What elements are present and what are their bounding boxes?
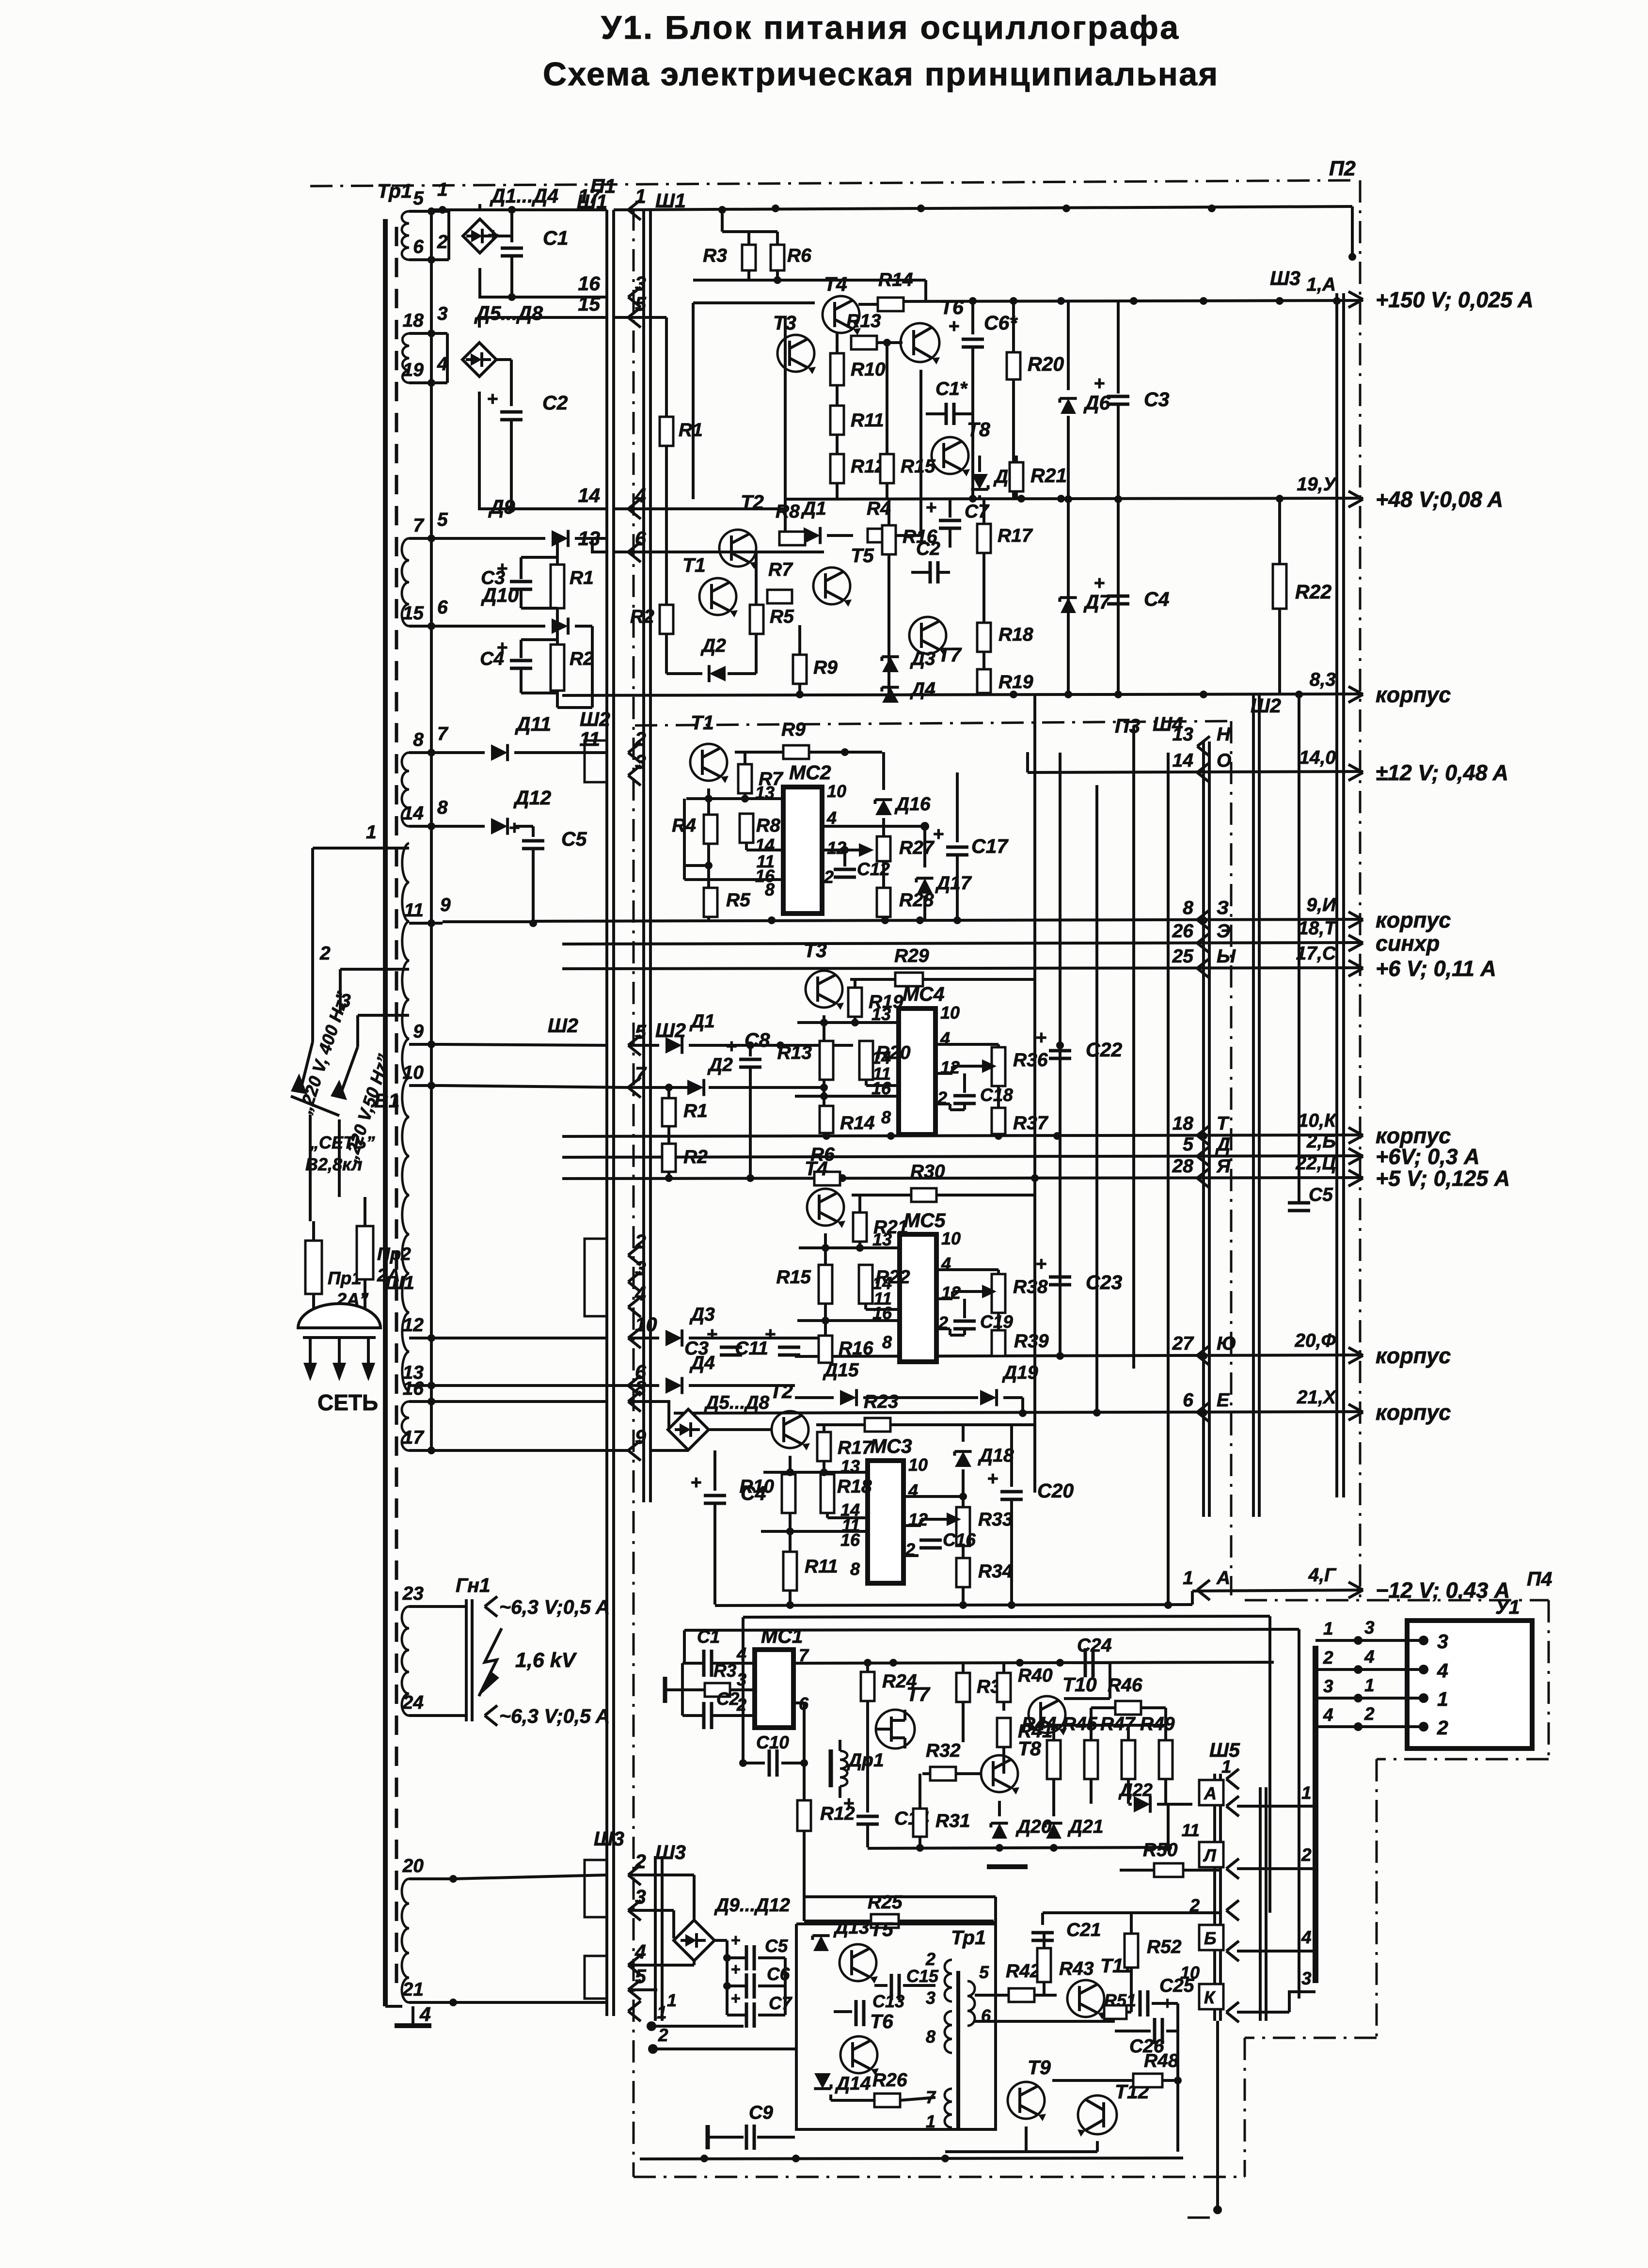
rail +6V 0,3: [562, 1156, 1363, 1157]
choke Dr1: [829, 1749, 833, 1787]
svg-text:Д2: Д2: [707, 1055, 733, 1075]
res R39: [997, 1313, 1000, 1330]
svg-text:C4: C4: [480, 648, 504, 669]
svg-text:Д2: Д2: [700, 635, 726, 656]
svg-text:10: 10: [1180, 1963, 1200, 1983]
svg-text:8: 8: [882, 1332, 892, 1352]
res R34: [962, 1546, 965, 1558]
connector Sh3 right double line: [1335, 293, 1338, 1497]
cap C15 wires: [874, 1984, 887, 1987]
wires to Sh2 pins 5,7: [443, 1044, 607, 1045]
svg-text:1,А: 1,А: [1306, 274, 1336, 295]
svg-text:Т6: Т6: [940, 296, 964, 318]
svg-text:3: 3: [635, 272, 646, 295]
cap C9: [708, 2136, 715, 2139]
svg-text:C7: C7: [965, 501, 990, 522]
svg-text:П2: П2: [1329, 157, 1356, 180]
svg-text:З: З: [1217, 898, 1229, 918]
svg-text:Л: Л: [1203, 1845, 1217, 1865]
svg-text:R2: R2: [630, 606, 654, 627]
svg-text:Т2: Т2: [770, 1380, 793, 1402]
diode D22: [1134, 1796, 1150, 1812]
svg-text:5: 5: [635, 1021, 647, 1043]
svg-text:5: 5: [635, 1965, 647, 1987]
terminal dots 1 2: [647, 2021, 656, 2031]
res R16: [887, 499, 890, 525]
svg-text:Я: Я: [1216, 1156, 1231, 1177]
svg-text:7: 7: [926, 2087, 936, 2107]
diode D11: [443, 751, 485, 754]
wire dots MC4: [776, 1041, 784, 1049]
IC MC5: [900, 1234, 936, 1362]
cap C18: [963, 1073, 966, 1093]
svg-text:+: +: [731, 1960, 741, 1979]
svg-text:Т1: Т1: [691, 711, 714, 734]
svg-text:16: 16: [403, 1378, 424, 1399]
svg-text:11: 11: [579, 728, 600, 750]
svg-text:Ш2: Ш2: [548, 1014, 578, 1037]
svg-text:9: 9: [413, 1021, 424, 1042]
svg-text:У1: У1: [1495, 1596, 1520, 1618]
cap C19: [963, 1299, 966, 1318]
svg-text:Д5...Д8: Д5...Д8: [704, 1392, 770, 1413]
svg-text:R3: R3: [703, 245, 727, 266]
svg-text:Д4: Д4: [910, 679, 935, 700]
transistor T3 MC4: [806, 971, 842, 1008]
diodes D3 D4: [882, 657, 899, 672]
res R21: [1015, 456, 1018, 462]
svg-text:R48: R48: [1144, 2050, 1179, 2071]
cap C16: [919, 1539, 942, 1542]
svg-text:5: 5: [1183, 1134, 1194, 1155]
svg-text:C15: C15: [906, 1966, 939, 1986]
svg-text:±12 V; 0,48 A: ±12 V; 0,48 A: [1376, 760, 1508, 785]
svg-text:4: 4: [1323, 1705, 1333, 1725]
cap C12: [843, 850, 846, 866]
connector column right pair: [642, 210, 645, 1502]
svg-text:корпус: корпус: [1376, 682, 1451, 707]
svg-text:1: 1: [635, 185, 646, 207]
cap C13: [855, 2000, 858, 2026]
FET T7: [876, 1710, 915, 1748]
svg-text:Ш3: Ш3: [655, 1841, 686, 1863]
MC1 block: [755, 1650, 793, 1728]
svg-text:C1: C1: [543, 227, 568, 249]
svg-text:Д21: Д21: [1067, 1816, 1104, 1837]
svg-text:корпус: корпус: [1376, 908, 1451, 932]
svg-text:R1: R1: [679, 420, 703, 441]
svg-text:8: 8: [850, 1559, 860, 1579]
svg-text:Д19: Д19: [1002, 1362, 1038, 1383]
svg-text:R8: R8: [756, 815, 780, 836]
svg-text:Т7: Т7: [906, 1683, 931, 1705]
transistor T9: [1008, 2082, 1045, 2119]
resistor R6: [771, 245, 784, 270]
rectifier bridge D1...D4: [443, 210, 449, 213]
svg-text:6: 6: [635, 527, 647, 550]
vertical junction wire right: [1298, 694, 1300, 1197]
svg-text:7: 7: [635, 1063, 647, 1085]
svg-text:3: 3: [1323, 1676, 1333, 1696]
svg-text:C22: C22: [1086, 1039, 1122, 1061]
res R12: [830, 454, 844, 483]
res R36 pot: [992, 1047, 1005, 1086]
wires MC5 left: [824, 1233, 827, 1265]
svg-text:C12: C12: [857, 859, 890, 879]
transistor T11: [1067, 1980, 1104, 2017]
svg-text:+: +: [933, 824, 944, 845]
svg-text:R1: R1: [570, 567, 594, 588]
svg-text:C5: C5: [561, 828, 587, 850]
svg-text:R5: R5: [770, 606, 794, 627]
svg-text:11: 11: [1182, 1820, 1200, 1840]
rail +-12V: [1028, 772, 1363, 772]
svg-text:1: 1: [1183, 1568, 1193, 1589]
svg-text:10: 10: [827, 781, 846, 801]
frame wire upper: [693, 279, 926, 282]
rail +5V: [562, 1178, 1363, 1179]
svg-text:25: 25: [1172, 946, 1194, 967]
svg-text:R11: R11: [805, 1556, 838, 1577]
svg-text:2: 2: [1323, 1648, 1333, 1668]
svg-text:Д17: Д17: [935, 873, 972, 894]
svg-text:R20: R20: [876, 1042, 911, 1063]
svg-text:24: 24: [402, 1692, 424, 1713]
res R41: [997, 1718, 1011, 1747]
res R19 MC4: [854, 979, 856, 988]
res R7: [767, 590, 792, 603]
svg-text:R2: R2: [683, 1147, 708, 1167]
svg-text:17: 17: [403, 1427, 425, 1448]
svg-text:R40: R40: [1018, 1665, 1053, 1686]
svg-text:9,И: 9,И: [1306, 895, 1336, 915]
voltage selector switch B1: [301, 1042, 313, 1090]
bottom rail T8: [868, 1847, 1168, 1848]
secondary winding 20-21: [402, 1879, 409, 2002]
svg-text:Д7: Д7: [1083, 591, 1111, 613]
svg-text:+: +: [843, 1793, 855, 1814]
cap C17: [956, 772, 959, 842]
svg-text:16: 16: [578, 272, 601, 295]
svg-text:Ш2: Ш2: [580, 708, 610, 730]
svg-text:R10: R10: [851, 359, 886, 380]
svg-text:11: 11: [404, 900, 424, 921]
svg-text:10: 10: [635, 1313, 657, 1336]
svg-text:5: 5: [413, 188, 424, 209]
svg-text:+: +: [1036, 1254, 1047, 1275]
res R27 pot: [877, 836, 890, 861]
board P3 border: [635, 721, 1231, 725]
svg-text:Д16: Д16: [894, 794, 931, 815]
svg-text:3: 3: [1364, 1618, 1375, 1638]
svg-text:МС1: МС1: [761, 1625, 803, 1647]
svg-text:C4: C4: [1144, 588, 1170, 610]
secondary winding 18-19: [402, 333, 409, 383]
svg-text:Т5: Т5: [851, 544, 874, 567]
svg-text:R7: R7: [759, 769, 784, 789]
res R22 MC5: [859, 1265, 872, 1304]
svg-text:Д1...Д4: Д1...Д4: [490, 185, 558, 207]
svg-text:2: 2: [658, 2025, 668, 2045]
svg-text:C19: C19: [980, 1312, 1013, 1332]
svg-text:2: 2: [824, 867, 834, 887]
svg-text:Д15: Д15: [823, 1360, 859, 1381]
svg-text:Гн1: Гн1: [456, 1574, 491, 1596]
secondary tap wires 9-10: [409, 1043, 443, 1046]
resistor R3: [742, 245, 756, 270]
svg-text:C10: C10: [756, 1732, 789, 1752]
wire bridge2 to pin 15/5: [479, 317, 607, 328]
rectifier bridge D5...D8: [462, 343, 496, 377]
transistor T2 MC3: [772, 1411, 808, 1448]
connector Sh2 right double line: [1252, 693, 1255, 1517]
svg-text:СЕТЬ: СЕТЬ: [317, 1390, 378, 1415]
res R5: [750, 605, 763, 634]
res R29: [895, 973, 923, 986]
svg-text:1: 1: [1437, 1688, 1448, 1710]
IC MC4: [899, 1008, 935, 1134]
svg-text:18: 18: [403, 310, 424, 331]
svg-text:Ш3: Ш3: [594, 1827, 624, 1850]
svg-text:6: 6: [413, 236, 424, 257]
svg-text:1: 1: [1323, 1619, 1333, 1638]
rail korpus 21,H: [674, 1412, 1363, 1413]
res R25: [871, 1914, 899, 1928]
svg-text:C18: C18: [980, 1085, 1013, 1105]
svg-text:МС3: МС3: [870, 1435, 912, 1457]
diode D10: [443, 625, 545, 628]
svg-text:14: 14: [578, 484, 600, 506]
svg-text:18,Т: 18,Т: [1298, 918, 1337, 939]
svg-text:Т: Т: [1217, 1113, 1230, 1134]
svg-text:21,Х: 21,Х: [1297, 1387, 1337, 1408]
svg-text:17,С: 17,С: [1296, 943, 1336, 964]
svg-text:Др1: Др1: [847, 1750, 884, 1771]
svg-text:2: 2: [437, 232, 448, 252]
svg-text:+5 V; 0,125 А: +5 V; 0,125 А: [1376, 1166, 1510, 1191]
svg-text:10,К: 10,К: [1298, 1110, 1337, 1131]
caps C3 C11 row: [720, 1346, 742, 1349]
IC MC2: [783, 787, 822, 913]
svg-text:1: 1: [1221, 1757, 1232, 1777]
svg-text:Пр2: Пр2: [377, 1244, 411, 1264]
res R7 MC2: [744, 752, 746, 764]
cap C7: [949, 499, 951, 518]
res R17: [982, 499, 985, 524]
cap C20: [1010, 1425, 1013, 1487]
wires MC4 left: [823, 1015, 825, 1041]
wires MC2 left: [707, 788, 710, 815]
svg-text:3: 3: [1437, 1630, 1448, 1653]
svg-text:2: 2: [634, 728, 646, 750]
svg-text:2: 2: [634, 1850, 646, 1873]
svg-text:Тр1: Тр1: [377, 180, 412, 202]
svg-text:10: 10: [403, 1062, 424, 1083]
svg-text:+: +: [1094, 373, 1105, 394]
vertical bus wires mid: [1033, 694, 1036, 1493]
svg-text:Т6: Т6: [870, 2010, 894, 2032]
svg-text:4: 4: [1437, 1659, 1448, 1682]
svg-text:R19: R19: [998, 672, 1033, 693]
svg-text:R18: R18: [998, 624, 1033, 645]
P4 pins on Sh4 column: [1197, 736, 1210, 746]
svg-text:синхр: синхр: [1376, 931, 1440, 956]
res R11: [830, 406, 844, 435]
svg-text:R7: R7: [768, 559, 793, 580]
svg-text:Д18: Д18: [978, 1445, 1014, 1466]
svg-text:Д9: Д9: [488, 496, 515, 518]
svg-text:~6,3 V;0,5 A: ~6,3 V;0,5 A: [499, 1596, 610, 1618]
svg-text:МС4: МС4: [903, 983, 945, 1005]
svg-text:Д14: Д14: [835, 2073, 871, 2094]
svg-text:1,6 kV: 1,6 kV: [515, 1649, 577, 1672]
cap C26: [1153, 2018, 1157, 2044]
svg-text:9: 9: [635, 1426, 646, 1448]
transistor T4 MC5: [807, 1189, 844, 1226]
resistor R14: [878, 298, 903, 311]
svg-text:R2: R2: [570, 648, 594, 669]
svg-text:C17: C17: [971, 835, 1009, 857]
diodes D1 D2 MC4: [628, 1044, 659, 1047]
svg-text:27: 27: [1172, 1333, 1195, 1354]
diode D12: [443, 825, 485, 828]
cap C4 right: [1117, 499, 1120, 593]
svg-text:О: О: [1217, 750, 1231, 771]
cap C22: [1059, 1045, 1062, 1047]
svg-text:Ш3: Ш3: [1270, 267, 1300, 289]
rail +6V 0,11: [562, 968, 1363, 969]
svg-text:Е: Е: [1217, 1390, 1230, 1411]
res R2 regulator: [660, 605, 673, 634]
svg-text:R17: R17: [998, 525, 1033, 546]
svg-text:R15: R15: [776, 1267, 811, 1288]
res R48: [1133, 2074, 1162, 2087]
svg-text:1: 1: [667, 1990, 677, 2010]
svg-text:C5: C5: [1309, 1184, 1333, 1205]
connector Sh5 double line: [1213, 1774, 1216, 2021]
res R18 MC3: [821, 1474, 834, 1513]
res R21 MC5: [858, 1195, 861, 1213]
svg-text:15: 15: [403, 603, 425, 624]
svg-text:R16: R16: [839, 1338, 873, 1359]
res R16 MC5 bottom: [819, 1336, 832, 1363]
res R32: [930, 1767, 956, 1780]
svg-text:19: 19: [403, 360, 424, 380]
svg-text:9: 9: [440, 895, 451, 915]
zener D18: [962, 1425, 965, 1442]
svg-text:R6: R6: [787, 245, 811, 266]
secondary winding 7-15: [402, 538, 409, 626]
Sh5 pins: [1199, 1780, 1223, 1805]
res R33 pot: [956, 1507, 970, 1546]
svg-text:4: 4: [1364, 1647, 1375, 1667]
svg-text:5: 5: [437, 509, 448, 530]
svg-text:У1. Блок питания осциллографа: У1. Блок питания осциллографа: [601, 9, 1180, 46]
transistor T8 osc: [981, 1755, 1018, 1792]
svg-text:8: 8: [765, 880, 775, 899]
svg-text:R9: R9: [813, 657, 838, 678]
wire T4 base row: [693, 301, 815, 304]
svg-text:4: 4: [736, 1644, 746, 1664]
svg-text:R11: R11: [851, 410, 884, 431]
svg-text:5: 5: [979, 1962, 989, 1982]
transistor T10: [1029, 1696, 1065, 1733]
svg-text:+: +: [1036, 1027, 1047, 1048]
transistor T2: [719, 530, 756, 567]
svg-text:Д3: Д3: [689, 1304, 715, 1325]
res R6 MC5: [814, 1172, 840, 1185]
output arrows to P2: [1348, 292, 1363, 300]
zener D21: [1046, 1823, 1062, 1839]
connector column Sh1/Sh2/Sh3 left pair: [605, 210, 608, 2016]
svg-text:10: 10: [940, 1003, 960, 1023]
res R51: [1104, 2005, 1126, 2019]
svg-text:23: 23: [402, 1583, 424, 1604]
svg-text:R17: R17: [838, 1437, 873, 1458]
svg-text:8: 8: [926, 2027, 935, 2047]
svg-text:19,У: 19,У: [1297, 474, 1337, 495]
res R19: [977, 669, 991, 693]
svg-text:4: 4: [634, 484, 646, 506]
transistor T4: [823, 296, 859, 333]
svg-text:В2,8кл: В2,8кл: [305, 1154, 363, 1174]
svg-text:+: +: [949, 316, 960, 337]
res R4 MC2: [704, 815, 717, 844]
svg-text:3: 3: [926, 1988, 935, 2008]
svg-text:R44: R44: [1022, 1714, 1057, 1734]
svg-text:6: 6: [1183, 1390, 1193, 1411]
res R8 MC2: [740, 814, 753, 843]
tap 11: [409, 922, 443, 925]
svg-text:Т7: Т7: [938, 644, 962, 666]
connector pins left column: [628, 200, 641, 210]
cap C25: [1139, 1990, 1142, 2016]
svg-text:C3: C3: [481, 567, 505, 588]
pin4 wire MC5: [936, 1268, 998, 1271]
svg-text:R19: R19: [869, 992, 903, 1012]
svg-text:Д11: Д11: [515, 713, 551, 735]
svg-text:Д1: Д1: [801, 498, 826, 519]
svg-text:4: 4: [634, 1940, 646, 1963]
res R26: [874, 2094, 900, 2107]
svg-text:2: 2: [1364, 1704, 1375, 1724]
svg-text:Н: Н: [1217, 724, 1231, 745]
ground stub MC1: [665, 1688, 682, 1691]
diode D5: [971, 474, 988, 489]
cap C1 osc: [702, 1650, 706, 1677]
transistor T1 MC2: [690, 744, 727, 781]
svg-text:2: 2: [634, 1230, 646, 1253]
secondary tap wires 12-13: [409, 1337, 443, 1339]
svg-text:R20: R20: [1028, 353, 1064, 375]
transformer ground pin 4: [385, 2005, 402, 2008]
zener D6: [1067, 301, 1070, 390]
svg-text:3: 3: [737, 1669, 746, 1689]
wires MC3 left: [789, 1456, 792, 1474]
wire from D9 to pin 13/6: [592, 538, 607, 552]
svg-text:8,3: 8,3: [1310, 669, 1336, 690]
svg-text:2: 2: [1301, 1845, 1312, 1865]
svg-text:R21: R21: [1030, 464, 1067, 487]
svg-text:R14: R14: [840, 1113, 875, 1134]
rail +48V: [785, 498, 1363, 499]
svg-text:R43: R43: [1059, 1958, 1094, 1979]
cap C4 res R2 filter: [520, 640, 523, 658]
svg-text:2: 2: [1189, 1895, 1200, 1915]
svg-text:R27: R27: [899, 837, 935, 858]
rail korpus 10,K: [562, 1135, 1363, 1136]
res R31: [919, 1774, 921, 1809]
